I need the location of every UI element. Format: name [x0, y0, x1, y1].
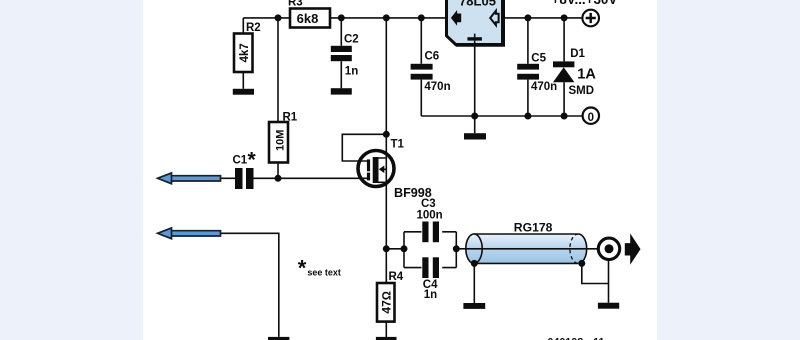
junction dot rail D1	[561, 14, 568, 21]
wire R1 branch from rail	[277, 18, 279, 122]
wire C2 to ground	[340, 61, 342, 88]
svg-text:see text: see text	[307, 267, 341, 277]
svg-text:47Ω: 47Ω	[379, 291, 393, 314]
wire input to C1	[221, 177, 236, 179]
junction dot rail R1	[275, 14, 282, 21]
resistor R4 body	[377, 283, 395, 322]
ground below R4	[376, 337, 397, 340]
junction dot rail drain	[383, 14, 390, 21]
resistor R2 body	[234, 34, 253, 73]
output arrow	[625, 233, 641, 264]
svg-text:C1: C1	[233, 155, 248, 167]
svg-text:*: *	[298, 255, 307, 280]
ground below coax left shield	[463, 303, 485, 309]
wire top rail right segment to + terminal	[504, 17, 583, 19]
wire C4 bottom branch	[404, 267, 456, 269]
junction dot gate2 loop	[383, 131, 390, 138]
svg-text:C5: C5	[531, 52, 546, 64]
svg-text:SMD: SMD	[569, 85, 595, 97]
svg-text:1n: 1n	[345, 66, 358, 78]
svg-text:10M: 10M	[274, 130, 286, 151]
capacitor C2 plates	[331, 46, 352, 61]
diode D1	[553, 61, 574, 82]
white schematic panel	[143, 0, 657, 340]
wire R2 branch from rail	[242, 18, 244, 34]
ground below C2	[331, 88, 352, 94]
capacitor C1 plates	[235, 168, 254, 189]
svg-text:1A: 1A	[577, 67, 596, 83]
wire C5 to ground bus	[527, 80, 529, 116]
wire antenna 2 to ground	[221, 233, 279, 337]
wire R4 top	[385, 249, 387, 283]
svg-text:R2: R2	[246, 22, 261, 34]
junction dot rail C2	[338, 14, 345, 21]
antenna input arrow 1	[158, 173, 221, 184]
svg-text:+8V...+30V: +8V...+30V	[552, 0, 618, 7]
wire output connector to ground	[608, 260, 610, 303]
junction dot gate1 node	[275, 175, 282, 182]
junction dot bus regulator	[471, 113, 478, 120]
wire gate2 loop	[342, 134, 386, 161]
coax cable RG178	[466, 234, 587, 263]
svg-text:4k7: 4k7	[239, 43, 251, 62]
svg-text:T1: T1	[391, 139, 405, 151]
junction dot bus D1	[561, 113, 568, 120]
wire C3 C4 parallel loop left rail	[403, 232, 405, 268]
ground below output connector	[598, 303, 619, 309]
wire C3 C4 parallel loop right rail	[455, 232, 457, 268]
wire coax centre conductor	[456, 248, 598, 250]
junction dot coax shield right	[578, 260, 585, 267]
junction dot cap pair right	[453, 245, 460, 252]
svg-text:R1: R1	[283, 111, 298, 123]
svg-text:78L05: 78L05	[459, 0, 496, 8]
wire C6 branch from rail	[420, 18, 422, 64]
svg-text:*: *	[248, 149, 257, 172]
wire C1 to gate1	[254, 177, 368, 179]
transistor T1 BF998 dual-gate MOSFET	[358, 151, 394, 187]
junction dot cap pair left	[401, 245, 408, 252]
wire drain line through T1 to source node	[385, 18, 387, 249]
wire C3 top branch	[404, 231, 456, 233]
wire coax shield left to ground	[473, 263, 475, 303]
wire top rail left segment	[243, 17, 290, 19]
junction dot rail C5	[524, 14, 531, 21]
antenna input arrow 2	[158, 228, 221, 239]
svg-text:1n: 1n	[424, 289, 437, 301]
zero volt terminal	[583, 108, 599, 124]
wire source node to capacitor pair	[386, 248, 404, 250]
wire C2 branch from rail	[340, 18, 342, 46]
resistor R1 body	[269, 122, 288, 163]
ground below R2	[233, 89, 254, 95]
wire R2 to ground	[242, 72, 244, 89]
wire C6 to ground bus	[420, 80, 422, 116]
resistor R3 body	[290, 9, 330, 28]
svg-text:R4: R4	[389, 271, 404, 283]
svg-text:R3: R3	[288, 0, 303, 8]
svg-text:470n: 470n	[531, 81, 557, 93]
wire to 0 terminal	[564, 115, 583, 117]
coax centre conductor over cylinder	[466, 248, 587, 250]
wire R4 to ground	[385, 322, 387, 337]
svg-text:0: 0	[588, 112, 594, 124]
wire coax shield right drop	[582, 263, 609, 283]
capacitor C5 plates	[517, 64, 539, 80]
svg-text:C2: C2	[344, 34, 359, 46]
wire main ground stem	[474, 116, 476, 133]
capacitor C3 plates	[422, 222, 439, 243]
capacitor C6 plates	[411, 64, 433, 80]
wire R1 bottom to gate node	[277, 163, 279, 179]
see text note	[298, 255, 341, 280]
positive supply terminal	[582, 10, 599, 27]
svg-text:C3: C3	[421, 198, 436, 210]
svg-text:6k8: 6k8	[297, 11, 319, 26]
wire regulator ground stem	[474, 45, 476, 117]
ground below antenna 2 wire	[268, 337, 289, 340]
junction dot rail C6	[418, 14, 425, 21]
svg-text:C6: C6	[425, 51, 440, 63]
svg-text:D1: D1	[570, 48, 585, 60]
svg-text:470n: 470n	[424, 81, 450, 93]
junction dot source node	[383, 245, 390, 252]
wire ground bus under regulator	[421, 115, 564, 117]
wire D1 top	[563, 18, 565, 62]
wire top rail middle segment	[330, 17, 446, 19]
wire D1 bottom	[563, 82, 565, 116]
junction dot bus C5	[524, 113, 531, 120]
voltage regulator U1 78L05	[447, 0, 504, 45]
wire C5 branch from rail	[527, 18, 529, 64]
svg-text:100n: 100n	[417, 209, 443, 221]
capacitor C4 plates	[422, 257, 439, 278]
main ground symbol under regulator	[464, 133, 486, 139]
junction dot coax shield left	[471, 260, 478, 267]
output connector	[598, 238, 619, 259]
svg-text:RG178: RG178	[514, 220, 553, 234]
